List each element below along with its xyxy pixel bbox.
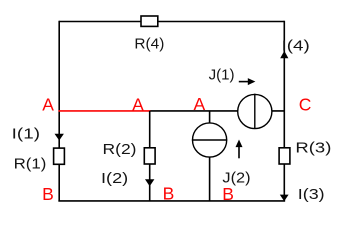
svg-text:R(4): R(4) <box>134 35 164 52</box>
resistor R(4) body <box>141 16 158 26</box>
svg-text:R(1): R(1) <box>14 155 47 172</box>
J(2) direction arrow (points up) <box>238 147 240 159</box>
wire: J(2) branch vertical x=209.6 <box>209 111 211 201</box>
current arrow I(1) (down, on left branch) <box>55 134 64 141</box>
svg-text:A: A <box>194 94 206 114</box>
current source J(2) circle <box>193 123 227 157</box>
svg-text:A: A <box>132 94 144 114</box>
svg-text:A: A <box>42 94 54 114</box>
J(1) direction arrow (points right) <box>239 81 249 83</box>
wire: left vertical branch x=59 <box>58 21 60 202</box>
current source J(2) horizontal bar <box>192 139 227 141</box>
svg-text:B: B <box>42 184 54 204</box>
wire: middle vertical branch x=149.7 <box>149 111 151 201</box>
wire: bottom horizontal node B rail <box>58 200 285 202</box>
svg-text:R(2): R(2) <box>103 141 137 158</box>
current source J(1) circle <box>238 94 272 128</box>
wire: node A highlighted red segment <box>58 110 150 112</box>
svg-text:I(3): I(3) <box>298 186 325 203</box>
svg-text:I(4): I(4) <box>282 38 310 55</box>
svg-text:B: B <box>222 184 234 204</box>
resistor R(3) body <box>279 148 290 164</box>
svg-text:B: B <box>163 184 175 204</box>
resistor R(2) body <box>144 148 155 164</box>
current arrow I(3) (down, on right rail at node B) <box>280 195 289 202</box>
wire: right vertical rail x=284 <box>283 21 285 202</box>
svg-text:R(3): R(3) <box>295 140 331 157</box>
current source J(1) vertical bar <box>254 94 256 129</box>
svg-text:I(2): I(2) <box>101 170 128 187</box>
wire: node A horizontal black segment <box>150 110 285 112</box>
current arrow I(2) (down, on middle branch) <box>145 179 154 186</box>
svg-text:J(1): J(1) <box>209 67 235 84</box>
wire: top horizontal from left branch to right rail <box>59 21 284 23</box>
svg-text:I(1): I(1) <box>12 126 40 143</box>
svg-text:C: C <box>299 95 312 115</box>
current arrow I(4) (up, on right rail) <box>280 51 288 58</box>
resistor R(1) body <box>54 148 65 164</box>
